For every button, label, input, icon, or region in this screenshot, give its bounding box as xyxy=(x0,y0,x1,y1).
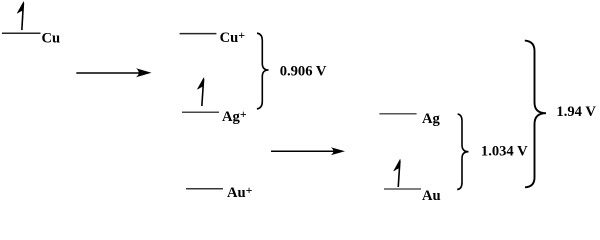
svg-text:Au: Au xyxy=(422,188,441,200)
reaction arrow 2 xyxy=(271,147,345,155)
svg-text:1.034 V: 1.034 V xyxy=(481,144,528,160)
energy level line Ag xyxy=(379,113,416,115)
svg-text:Au+: Au+ xyxy=(227,183,253,200)
brace for 1.034 V xyxy=(457,114,468,190)
svg-text:0.906 V: 0.906 V xyxy=(280,64,327,80)
energy level line Cu+ xyxy=(180,33,217,35)
electron arrow on Ag+ level xyxy=(197,78,204,106)
svg-text:Cu+: Cu+ xyxy=(220,28,246,46)
energy level line Cu xyxy=(2,32,41,34)
reaction arrow 1 xyxy=(76,68,151,77)
svg-text:Cu: Cu xyxy=(42,30,61,46)
svg-text:Ag+: Ag+ xyxy=(222,107,247,125)
electron arrow on Cu level xyxy=(17,2,24,31)
energy level line Au xyxy=(384,188,421,190)
svg-text:Ag: Ag xyxy=(422,111,441,127)
energy level line Au+ xyxy=(186,188,223,190)
svg-text:1.94 V: 1.94 V xyxy=(556,104,596,120)
brace for 0.906 V xyxy=(257,33,269,109)
overall brace for 1.94 V xyxy=(525,41,546,188)
electron arrow on Au level xyxy=(394,159,401,187)
energy level line Ag+ xyxy=(182,111,219,113)
